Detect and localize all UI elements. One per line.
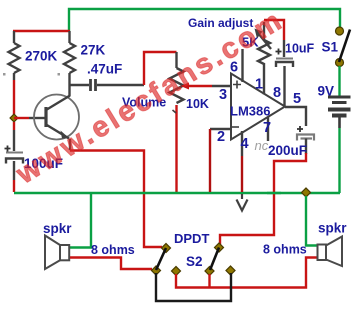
node: base junction xyxy=(10,114,18,122)
capacitor C3 10uF xyxy=(276,49,294,68)
wire: green V+ rail top xyxy=(69,9,340,31)
wire: red output down to DPDT xyxy=(220,153,306,245)
svg-text:DPDT: DPDT xyxy=(174,231,209,246)
pin 2 wire xyxy=(210,128,231,130)
speaker left xyxy=(45,236,69,270)
wire: red up-over to volume pot xyxy=(144,52,177,85)
svg-text:6: 6 xyxy=(230,60,238,76)
wire: gray lead to 10uF xyxy=(283,40,285,57)
svg-text:270K: 270K xyxy=(25,49,58,64)
wire: gray from cap to corner xyxy=(97,84,144,86)
wire: green ground rail xyxy=(14,192,340,194)
svg-text:S2: S2 xyxy=(186,254,203,269)
svg-text:spkr: spkr xyxy=(318,221,347,236)
contact B1 xyxy=(151,266,160,275)
svg-text:nc: nc xyxy=(255,138,269,153)
svg-text:5: 5 xyxy=(293,91,301,107)
svg-text:1: 1 xyxy=(255,77,263,93)
contact B2 xyxy=(171,266,180,275)
svg-text:10uF: 10uF xyxy=(285,42,315,56)
battery V1 9V xyxy=(328,66,351,193)
svg-text:spkr: spkr xyxy=(43,221,72,236)
wire: collector lead up xyxy=(68,85,70,96)
resistor R1 270K xyxy=(9,31,20,80)
transistor Q1 xyxy=(34,95,79,140)
svg-text:4: 4 xyxy=(241,136,249,152)
lever pole1 xyxy=(156,248,166,270)
contact A2 xyxy=(214,243,223,252)
pin 6 wire xyxy=(241,49,243,82)
node: ground rail / speaker junction xyxy=(301,188,310,197)
svg-text:27K: 27K xyxy=(81,43,106,58)
wire: green to left speaker xyxy=(70,193,91,248)
svg-text:200uF: 200uF xyxy=(268,143,307,158)
pin 8 wire xyxy=(283,66,285,106)
svg-text:8: 8 xyxy=(273,85,281,101)
svg-text:10K: 10K xyxy=(186,97,209,111)
wire: red base horizontal xyxy=(14,117,29,119)
wire: red emitter run to DPDT xyxy=(69,139,71,150)
speaker right xyxy=(318,237,343,267)
wire: red gain loop top xyxy=(264,20,284,40)
wire: pot wiper red arrow to pin3 xyxy=(181,83,190,90)
svg-text:Volume: Volume xyxy=(122,96,166,110)
minus marker pin2 xyxy=(232,126,239,128)
svg-text:8 ohms: 8 ohms xyxy=(263,243,307,257)
wire: gray base lead xyxy=(29,117,45,119)
capacitor C1 .47uF xyxy=(91,79,96,91)
svg-text:Gain adjust: Gain adjust xyxy=(188,16,253,30)
svg-text:2: 2 xyxy=(217,129,225,145)
wire: gray to .47uF xyxy=(70,84,90,86)
svg-text:8 ohms: 8 ohms xyxy=(91,243,135,257)
potentiometer R4 5K xyxy=(258,22,271,64)
wire: red pot bottom to ground rail xyxy=(175,105,177,192)
svg-text:9V: 9V xyxy=(318,84,335,99)
plus marker pin3 xyxy=(233,81,241,89)
wire: green to right speaker xyxy=(306,196,317,246)
svg-text:.47uF: .47uF xyxy=(87,62,122,77)
wire: red base feed left column xyxy=(13,80,15,117)
switch S1 xyxy=(336,27,344,35)
contact B3 xyxy=(205,266,214,275)
svg-text:7: 7 xyxy=(263,120,271,136)
contact B4 xyxy=(226,266,235,275)
capacitor C4 200uF xyxy=(297,126,314,154)
op-amp U1 LM386 triangle xyxy=(231,74,285,140)
contact A1 xyxy=(161,243,170,252)
potentiometer R3 10K volume xyxy=(170,52,184,103)
pin 4 wire xyxy=(241,131,243,156)
svg-text:3: 3 xyxy=(219,87,227,103)
capacitor C2 100uF xyxy=(5,122,24,192)
wire: black B1 to B4 xyxy=(156,273,231,301)
svg-text:LM386: LM386 xyxy=(230,104,270,119)
svg-text:100uF: 100uF xyxy=(24,156,63,171)
resistor R2 27K xyxy=(64,31,75,85)
wire: red top-left between resistors xyxy=(13,30,70,32)
wire: pin5 output xyxy=(285,107,306,126)
wire: red B2/B3 to right speaker xyxy=(176,258,317,288)
lever pole2 xyxy=(210,248,219,271)
svg-text:5K: 5K xyxy=(242,35,259,50)
pin 7 wire nc xyxy=(267,117,269,141)
wire: red left speaker to DPDT xyxy=(70,258,152,270)
wire: green rail over crossing xyxy=(267,192,281,194)
ground symbol xyxy=(237,194,248,211)
svg-text:S1: S1 xyxy=(322,40,339,55)
pin 1 wire xyxy=(263,63,265,95)
